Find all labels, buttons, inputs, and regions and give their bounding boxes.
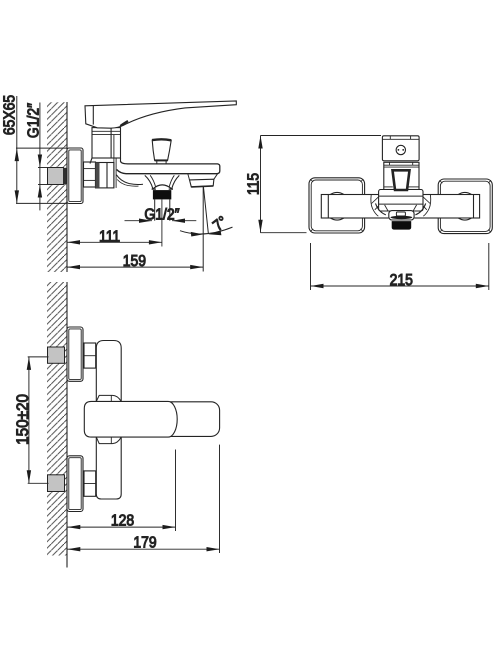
dimension 128 — [67, 526, 175, 528]
hex nut upper (top view) — [84, 343, 96, 368]
tip connector slant left — [188, 174, 190, 180]
escutcheon lower (top view) — [67, 456, 83, 512]
wall hatch (upper wall) — [47, 102, 67, 272]
handle stem trapezoid (heavy) — [393, 170, 410, 190]
tube end cap left — [327, 195, 329, 219]
inlet fitting — [96, 163, 114, 188]
center valve block (front) — [379, 190, 423, 212]
body fillet curves right — [423, 195, 430, 216]
svg-text:128: 128 — [111, 513, 134, 530]
svg-text:111: 111 — [99, 229, 120, 246]
block internal lines — [379, 195, 423, 197]
spout front plate — [389, 211, 414, 220]
body fillet curves left — [371, 195, 378, 216]
supply pipe through wall (grey) — [48, 168, 64, 185]
dimension G1/2 (left) line — [39, 103, 41, 211]
shower hose outlet (black) — [153, 190, 171, 199]
outlet flange (dark ellipse) — [391, 216, 413, 219]
wall face line (lower wall) — [66, 282, 68, 568]
escutcheon left (front) — [309, 178, 365, 233]
escutcheon plate (side view) — [67, 148, 83, 204]
lever main (top view) — [84, 401, 177, 437]
outlet center line — [161, 199, 163, 246]
deck-to-inlet fillet curves — [116, 175, 143, 185]
dimension 65X65 line — [16, 96, 18, 203]
union nib left top — [330, 192, 344, 194]
dimension 65X65 extension lines — [16, 147, 67, 149]
dimension 159 — [67, 266, 203, 268]
handle (front) — [382, 136, 419, 161]
escutcheon right (front) — [438, 179, 492, 234]
svg-text:159: 159 — [123, 253, 146, 270]
diverter stem — [157, 160, 166, 164]
dimension 111 — [67, 241, 162, 243]
handle housing (front) — [384, 162, 419, 189]
tip connector slant right — [214, 174, 218, 179]
supply pipe upper (grey) — [48, 347, 65, 363]
skirt curves below block — [376, 203, 386, 215]
supply pipe lower (grey) — [48, 475, 65, 492]
faucet body (top view) — [96, 341, 121, 500]
hex nut lower (top view) — [84, 471, 96, 496]
svg-text:150±20: 150±20 — [13, 394, 32, 445]
dimension 179 — [67, 548, 219, 550]
svg-text:215: 215 — [390, 272, 413, 289]
arc arrowhead left — [191, 232, 204, 237]
svg-text:G1/2″: G1/2″ — [144, 207, 179, 224]
dimension 150+-20 extension lines — [28, 356, 49, 358]
lever grip (top view, rear) — [159, 402, 220, 437]
dimension 150+-20 line — [28, 357, 30, 483]
spout deck body — [121, 161, 220, 174]
arc arrowhead right — [208, 231, 221, 236]
svg-text:65X65: 65X65 — [2, 95, 19, 135]
7deg wedge lines — [202, 187, 204, 272]
union nib right top — [458, 192, 471, 194]
7deg arc — [180, 227, 233, 234]
skirt slants — [385, 205, 388, 211]
bell skirt (shower outlet escutcheon) — [146, 176, 179, 189]
svg-text:115: 115 — [246, 173, 263, 195]
svg-text:179: 179 — [133, 535, 156, 552]
spout tip — [190, 179, 214, 187]
lower collar (top view) — [96, 437, 121, 444]
union nib left bottom — [330, 218, 344, 220]
dimension 115 — [261, 135, 382, 137]
diverter knob — [152, 139, 171, 160]
projection line lever grip — [219, 445, 221, 553]
projection line lever main — [175, 450, 177, 532]
wall face line (upper wall) — [66, 102, 68, 272]
pipe end dark segment — [63, 168, 67, 184]
svg-text:G1/2″: G1/2″ — [26, 103, 43, 138]
union nib right bottom — [458, 218, 471, 220]
tube end cap right — [473, 195, 475, 219]
handle lever (side view) — [85, 101, 236, 128]
plate tab — [396, 212, 405, 216]
hex union nut (side view) — [84, 162, 96, 187]
escutcheon upper (top view) — [67, 327, 83, 381]
handle dial circle — [396, 145, 405, 154]
upper collar (top view) — [96, 395, 121, 401]
svg-text:7°: 7° — [210, 213, 231, 234]
body tube (front) — [321, 195, 479, 219]
deck bottom edge — [117, 170, 217, 174]
aerator (black) — [392, 221, 412, 230]
outlet pipe lines — [154, 199, 156, 220]
dimension G1/2 (bottom) — [125, 220, 153, 222]
dimension 215 — [310, 243, 312, 290]
wall hatch (lower wall) — [47, 282, 67, 556]
valve body block — [92, 128, 121, 158]
